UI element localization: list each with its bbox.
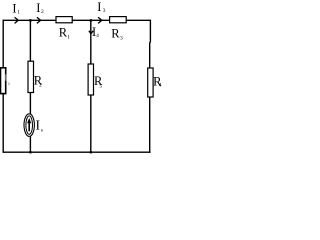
svg-text:2: 2 [41, 9, 44, 15]
current arrow I4 (downward on middle-right branch) [89, 25, 99, 39]
svg-text:4: 4 [159, 83, 162, 89]
wire right vertical [149, 20, 152, 153]
svg-text:I: I [12, 1, 16, 15]
svg-text:I: I [36, 1, 40, 15]
svg-text:4: 4 [96, 33, 99, 39]
wire top horizontal [3, 19, 151, 21]
resistor R1 [56, 17, 72, 41]
wire left vertical [2, 20, 4, 153]
node junction bottom-left (branch 2 / bottom wire) [29, 151, 31, 153]
svg-text:s: s [41, 127, 43, 133]
svg-text:R: R [111, 27, 120, 41]
node junction top-left (branch 2 / top wire) [29, 19, 31, 21]
svg-text:I: I [97, 0, 101, 14]
resistor R2 [28, 61, 43, 92]
svg-text:3: 3 [103, 8, 106, 14]
current arrow I1 [12, 1, 20, 23]
resistor R4 [148, 68, 162, 97]
wire bottom horizontal [3, 151, 151, 153]
wire middle-left branch [29, 20, 31, 152]
resistor R5 [88, 64, 103, 95]
svg-text:2: 2 [39, 83, 42, 89]
current arrow I3 [97, 0, 105, 23]
svg-text:1: 1 [17, 9, 20, 15]
node junction bottom-right (branch 3 / bottom wire) [90, 151, 92, 153]
svg-text:I: I [36, 117, 41, 132]
resistor R6 (left edge, faint label) [1, 68, 10, 94]
svg-text:3: 3 [120, 35, 123, 41]
wire middle-right branch [90, 20, 92, 152]
svg-text:5: 5 [99, 83, 102, 89]
current arrow I2 [36, 1, 44, 24]
svg-text:1: 1 [67, 34, 70, 40]
current source Is (double ellipse with up arrow) [24, 114, 43, 137]
node junction top-right (branch 3 / top wire) [90, 19, 92, 21]
resistor R3 [110, 17, 127, 42]
